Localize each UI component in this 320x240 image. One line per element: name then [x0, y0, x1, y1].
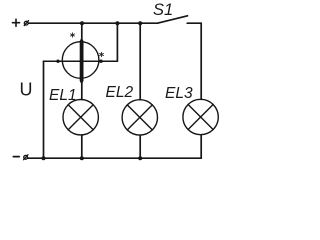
terminal - — [24, 155, 28, 160]
switch S1 — [158, 16, 188, 23]
junction dot top wattmeter — [80, 21, 84, 25]
wire top rail — [29, 22, 158, 24]
wire EL1 bottom — [81, 135, 83, 158]
wattmeter U1 circle — [62, 42, 99, 79]
svg-text:S1: S1 — [153, 1, 173, 19]
wattmeter coil dot left — [56, 60, 59, 63]
lamp EL2 circle — [122, 100, 157, 135]
svg-text:U: U — [20, 80, 33, 100]
minus sign — [13, 156, 19, 158]
wire EL2 branch — [139, 23, 141, 100]
svg-text:EL1: EL1 — [49, 87, 77, 104]
wire switch right contact — [187, 23, 201, 99]
wire wattmeter branch top — [81, 23, 83, 39]
asterisk top — [71, 33, 75, 37]
svg-text:EL3: EL3 — [165, 85, 193, 102]
junction dot bottom left — [42, 156, 46, 160]
wattmeter voltage line — [44, 60, 118, 62]
svg-text:EL2: EL2 — [106, 84, 134, 101]
asterisk right — [100, 52, 104, 56]
wire bottom rail — [28, 157, 201, 159]
wire EL2 bottom — [139, 135, 141, 158]
junction dot top EL2 — [138, 21, 142, 25]
wire EL3 bottom — [200, 135, 202, 159]
junction dot bottom EL2 — [138, 156, 142, 160]
terminal + — [24, 21, 28, 26]
wire wattmeter to EL1 — [81, 83, 83, 100]
junction dot bottom EL1 — [80, 156, 84, 160]
plus sign — [13, 19, 20, 26]
lamp EL1 circle — [63, 100, 98, 135]
junction dot top voltage — [115, 21, 119, 25]
wire EL3 top — [200, 98, 202, 100]
wire voltage left branch — [43, 61, 45, 158]
wattmeter current bar — [80, 38, 84, 85]
lamp EL3 circle — [183, 99, 218, 134]
wire voltage right branch — [116, 23, 118, 61]
wattmeter coil dot right — [99, 60, 102, 63]
